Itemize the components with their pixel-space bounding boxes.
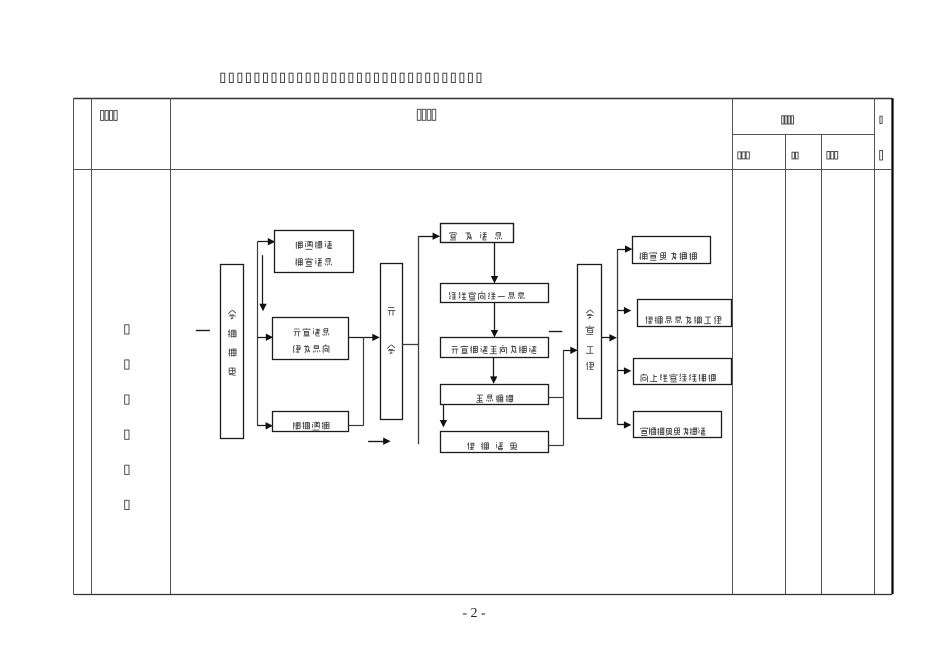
connector to 会后工作 bbox=[548, 347, 578, 446]
row label vertical tofu (6 chars) bbox=[125, 325, 129, 510]
box 做好记录 bbox=[441, 432, 549, 453]
trunk connector bbox=[257, 242, 259, 426]
branch arrow to 定期检查整改情况 bbox=[617, 421, 631, 428]
branch arrow to 开展谈心 bbox=[257, 334, 273, 341]
page number bbox=[0, 606, 949, 622]
branch arrow to 宣布议题 bbox=[418, 233, 440, 240]
stub 开会 to distribution line bbox=[402, 344, 418, 346]
box 重点剖析 bbox=[441, 385, 549, 405]
arrow 宣布→组织 bbox=[491, 243, 498, 284]
arrow 批评→重点剖析 bbox=[490, 358, 497, 384]
box 沟通情况研究议题 bbox=[275, 231, 354, 273]
branch arrow to 做好思想政治工作 bbox=[617, 307, 631, 314]
box 开展谈心征求意见 bbox=[273, 318, 349, 360]
branch arrow to 向上级党组织汇报 bbox=[617, 367, 631, 374]
header flow-column title tofu bbox=[417, 109, 435, 120]
box 开会 bbox=[381, 264, 403, 420]
box 会后工作 bbox=[578, 265, 602, 419]
box 会前准备 bbox=[221, 265, 244, 439]
dash before 会前准备 bbox=[196, 330, 210, 332]
box 做好思想政治工作 bbox=[638, 300, 732, 327]
box 定期检查整改情况 bbox=[634, 412, 722, 438]
box 向上级党组织汇报 bbox=[634, 359, 732, 385]
floating arrow below 开会 bbox=[368, 438, 391, 445]
header sub-cell2 tofu bbox=[792, 152, 798, 159]
remark column tofu bottom bbox=[880, 151, 883, 161]
middle distribution line bbox=[418, 236, 420, 444]
dash left of 会后工作 bbox=[549, 331, 563, 333]
branch arrow to 提前通知 bbox=[257, 422, 273, 429]
branch arrow to 制定整改措施 bbox=[617, 245, 632, 252]
header sub-cell3 tofu bbox=[827, 152, 838, 160]
down arrow 沟通→开展 bbox=[259, 255, 266, 311]
box 提前通知 bbox=[273, 412, 349, 432]
remark column tofu top bbox=[880, 116, 882, 123]
arrow 重点剖析→做好记录 bbox=[440, 405, 447, 428]
box 开展批评与自我批评 bbox=[441, 338, 549, 358]
table grid bbox=[74, 98, 893, 594]
box 制定整改措施 bbox=[633, 237, 711, 264]
box 组织学习统一思想 bbox=[441, 284, 549, 303]
header cell label tofu (col2) bbox=[101, 111, 118, 121]
header right span title tofu bbox=[782, 116, 794, 124]
branch arrow to 沟通情况 bbox=[257, 238, 275, 245]
header sub-cell1 tofu bbox=[738, 152, 750, 159]
box 宣布议题 bbox=[441, 224, 514, 243]
right distribution line bbox=[617, 249, 619, 425]
stub 会后工作 to right line bbox=[602, 334, 617, 341]
connector to 开会 bbox=[349, 334, 380, 426]
title tofu row bbox=[221, 73, 481, 82]
arrow 组织→批评 bbox=[491, 303, 498, 338]
